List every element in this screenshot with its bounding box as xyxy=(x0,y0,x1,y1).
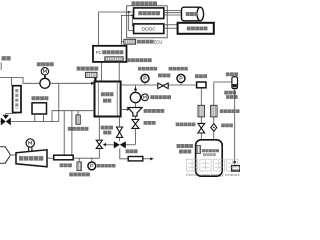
stack inner line left xyxy=(97,83,99,116)
wire dot B to DC/DC xyxy=(132,15,133,26)
radiator 散热水箱 xyxy=(13,86,21,113)
regulator box 调压阀 xyxy=(197,82,206,88)
label 智能功率模块 xyxy=(127,58,152,62)
wire bypass to purge join xyxy=(126,144,136,146)
label 池堆 xyxy=(103,99,111,103)
arrow IR down xyxy=(233,161,236,164)
label 电压巡检器 xyxy=(77,67,99,71)
wire dot A to DC/DC xyxy=(129,12,134,30)
pump stem xyxy=(44,75,46,78)
label 中冷器 xyxy=(60,163,72,167)
svg-text:FC: FC xyxy=(96,50,102,55)
air shutoff valve 空气截止阀 xyxy=(116,127,122,137)
injector valve 喷射器 xyxy=(158,83,168,89)
label in-tank row2 xyxy=(203,153,216,156)
pump circle 电动水泵 xyxy=(40,78,50,88)
wire 3-phase U xyxy=(164,9,183,11)
arrow coolant into stack xyxy=(91,82,94,85)
label 压力传感器 P1 xyxy=(138,67,157,71)
junction dot A xyxy=(128,11,130,13)
wire AC leg 2 xyxy=(43,114,45,122)
label 温度传感器 lower xyxy=(69,172,90,176)
label 红外线 xyxy=(224,91,236,95)
wire coolant top-left xyxy=(0,78,40,84)
label 气液分离器 xyxy=(144,109,165,113)
three-way valve body xyxy=(1,115,11,126)
wire stack-negative xyxy=(118,62,120,82)
wire valve up to stack xyxy=(98,117,100,141)
label 发射器 xyxy=(226,95,238,99)
pump motor M circle xyxy=(41,68,48,75)
label 加氢口 xyxy=(226,72,238,76)
wire compressor to intercooler xyxy=(47,157,54,159)
watermark xyxy=(186,159,240,177)
label 温度传感器 upper xyxy=(68,127,89,131)
wire AC leg 1 xyxy=(34,114,36,122)
wire air line xyxy=(73,148,99,158)
wire FC- bus xyxy=(121,15,133,45)
label 高压传感器 xyxy=(220,109,240,113)
label 能量控制单元 xyxy=(132,1,158,5)
label 电机控制器 xyxy=(138,11,160,15)
wire stack to shutoff valve xyxy=(119,117,121,128)
arrow into separator xyxy=(127,108,130,111)
label 调压阀 xyxy=(195,74,207,78)
wire battery 1 xyxy=(164,24,178,26)
svg-text:ECU: ECU xyxy=(154,39,163,44)
sensor box in-tank xyxy=(196,146,200,154)
svg-text:DC/DC: DC/DC xyxy=(142,26,156,31)
label 感器 (clipped) xyxy=(2,56,11,60)
label 电动水泵 xyxy=(37,62,54,66)
wire 3-phase W xyxy=(164,14,183,16)
sensor box HP-left xyxy=(198,105,205,117)
box fuel-cell-stack 燃料电池堆 xyxy=(95,82,121,117)
stack inner line right xyxy=(116,83,118,116)
wire fill line xyxy=(214,82,232,140)
wire exhaust down xyxy=(120,148,128,158)
label 空调系统 xyxy=(32,96,49,100)
H2 pump circle xyxy=(130,92,140,102)
wire battery 2 xyxy=(164,27,178,29)
compressor 空气压缩机 xyxy=(16,150,47,167)
air shutoff 3way valve xyxy=(96,140,106,148)
sensor box intelligent-power-module xyxy=(105,57,123,61)
wire shutoff valve down xyxy=(119,137,121,141)
IR transmitter box xyxy=(232,166,240,172)
box motor-controller 电机控制器 xyxy=(134,8,164,19)
box power-battery 动力电池包 xyxy=(178,23,214,34)
bypass black valve xyxy=(114,141,126,148)
motor 电动机 body xyxy=(182,7,204,21)
wire intercooler coolant 2 xyxy=(71,111,73,156)
wire 3-phase V xyxy=(164,12,183,14)
stem temp-sensor-2 xyxy=(78,158,80,162)
label FC升压转换器 xyxy=(96,50,123,55)
wire purge down xyxy=(134,128,136,144)
wire filter to compressor xyxy=(11,154,17,156)
muffler 消音器 xyxy=(128,157,143,161)
compressor motor M xyxy=(26,139,34,151)
pressure sensor P1 xyxy=(141,74,149,85)
label 电磁阀 xyxy=(144,121,156,125)
sensor box temperature-1 xyxy=(76,115,80,124)
box AC-system 空调系统 xyxy=(32,103,47,114)
wire 3way-valve to radiator xyxy=(6,113,17,115)
sensor box cell-voltage-monitor xyxy=(86,72,98,77)
box DC/DC converter xyxy=(134,24,164,34)
label 传感器 xyxy=(179,150,191,154)
H2 pump motor M xyxy=(142,94,149,101)
label 止回阀 xyxy=(221,124,233,128)
wire stub to ECU xyxy=(121,41,123,43)
wire stack-positive xyxy=(101,62,103,82)
label in-tank row1 xyxy=(202,149,219,152)
label 燃料电 xyxy=(101,92,114,96)
label 压力传感器 air xyxy=(97,164,116,168)
sensor box HP-right xyxy=(211,105,218,117)
wire pump to separator xyxy=(135,103,137,108)
wire muffler out xyxy=(143,158,151,160)
stem separator to valve xyxy=(135,116,137,119)
stub voltage-monitor to stack xyxy=(94,78,96,82)
stem pressure-sensor air xyxy=(91,158,93,162)
label 高压电磁阀 xyxy=(176,123,196,127)
label 喷射器 xyxy=(158,73,170,77)
wire left-edge stub xyxy=(0,63,2,71)
wire coolant return line B xyxy=(11,121,59,123)
wire FC+ bus xyxy=(99,12,134,46)
wire H2 main line xyxy=(121,84,197,86)
check valve 止回阀 xyxy=(211,124,217,132)
fill port 加氢口 xyxy=(232,77,238,89)
wire pump recirc xyxy=(135,85,137,92)
arrow recirc up xyxy=(134,87,137,91)
pressure sensor P2 xyxy=(177,74,185,85)
wire coolant return line A xyxy=(52,111,95,122)
wire stack to separator xyxy=(121,109,127,111)
intercooler 中冷器 xyxy=(54,155,73,160)
sensor box energy-management-ECU xyxy=(124,39,136,44)
label 止阀 xyxy=(103,131,111,135)
svg-text:Century new energy network: Century new energy network xyxy=(186,173,240,177)
label 消音器 xyxy=(126,149,138,153)
air filter hexagon xyxy=(0,147,11,163)
pressure sensor P air xyxy=(88,162,96,170)
box energy-control-unit outline xyxy=(127,6,168,38)
wire pump to stack xyxy=(50,82,92,84)
HP solenoid valve xyxy=(198,123,205,133)
junction dot B xyxy=(131,14,133,16)
label 压力传感器 P2 xyxy=(169,67,188,71)
label 能量管理ECU xyxy=(137,39,162,44)
label 氢瓶温度 xyxy=(177,144,194,148)
wire 3way-valve left port xyxy=(0,121,2,123)
wire branch to AC loop xyxy=(58,83,60,121)
label 空气截 xyxy=(101,126,113,130)
wire IR line xyxy=(234,89,236,162)
purge valve 电磁阀 xyxy=(132,119,139,128)
stem temp-sensor-1 xyxy=(77,111,79,115)
hydrogen tank xyxy=(196,140,223,176)
wire radiator feed xyxy=(11,78,13,86)
wire bypass branch xyxy=(106,144,114,146)
label 氢气循环泵 xyxy=(150,95,171,99)
arrow exhaust out xyxy=(150,157,153,160)
wire intercooler coolant 1 xyxy=(63,111,65,156)
box FC-boost-converter FC升压转换器 xyxy=(93,46,127,62)
separator funnel 气液分离器 xyxy=(128,108,142,117)
sensor box temperature-2 xyxy=(77,162,81,171)
wire regulator down xyxy=(200,88,202,140)
